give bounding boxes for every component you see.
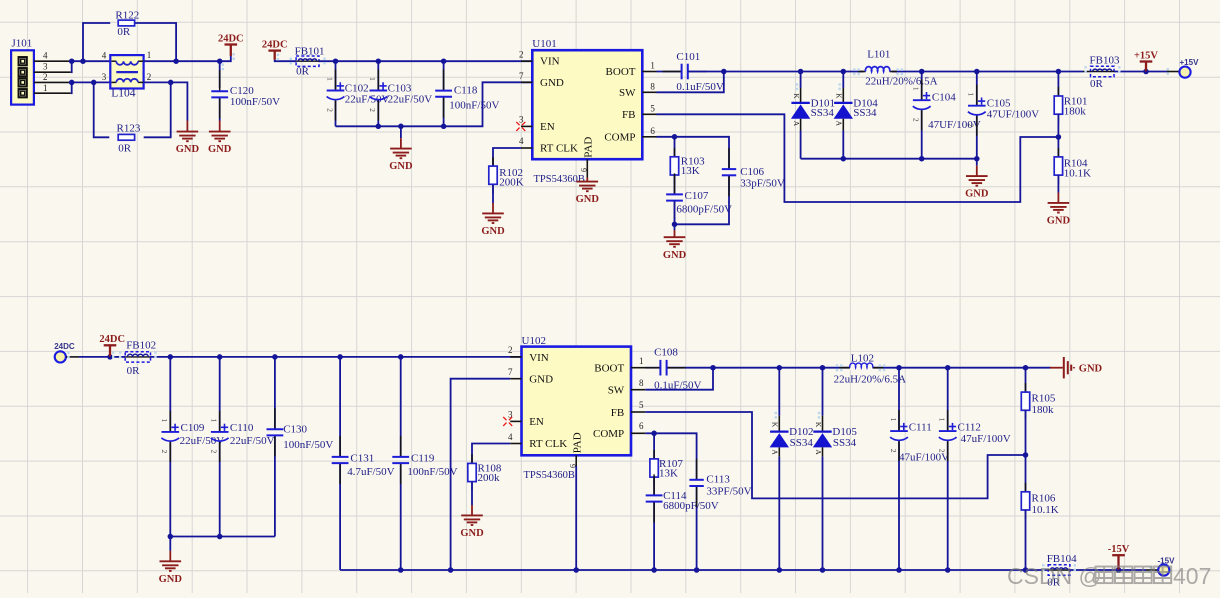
svg-text:R123: R123: [117, 123, 141, 135]
svg-text:0R: 0R: [118, 142, 132, 154]
svg-text:1: 1: [889, 418, 898, 422]
junction C111 tap: [896, 365, 902, 371]
ferrite bead FB104: [1048, 565, 1070, 575]
wire rail to FB103: [1058, 71, 1083, 73]
svg-text:2: 2: [967, 123, 976, 127]
wire C118 top: [443, 61, 445, 90]
junction GND tap: [398, 124, 404, 130]
ground GND net3 stub: [400, 138, 402, 148]
svg-text:7: 7: [508, 367, 513, 377]
svg-text:U102: U102: [522, 335, 546, 347]
junction D105 tap: [820, 365, 826, 371]
wire to R105: [1025, 368, 1027, 392]
svg-text:24DC: 24DC: [54, 342, 75, 351]
svg-text:2: 2: [889, 449, 898, 453]
wire pin3 riser: [70, 61, 73, 72]
svg-text:47UF/100V: 47UF/100V: [987, 108, 1040, 120]
resistor R101: [1057, 87, 1059, 96]
wire BOOT to C101: [657, 71, 682, 73]
resistor R106: [1025, 483, 1027, 492]
svg-text:7: 7: [519, 71, 524, 81]
capacitor C102: [335, 70, 337, 91]
junction R123 right: [168, 80, 174, 86]
junction C102 tap: [333, 58, 339, 64]
junction C114 bottom: [651, 567, 657, 573]
wire COMP to R103: [674, 137, 676, 157]
junction 24DC sym: [107, 354, 113, 360]
D104 anode pin: [842, 119, 844, 131]
svg-text:180k: 180k: [1032, 404, 1055, 416]
svg-text:RT CLK: RT CLK: [529, 438, 567, 450]
wire C119 top: [400, 357, 402, 457]
junction C120 tap: [217, 58, 223, 64]
wire COMP2 to C113: [654, 433, 697, 480]
wire to GND7: [674, 224, 676, 230]
wire PAD to rail: [575, 466, 577, 570]
svg-text:EN: EN: [540, 121, 555, 133]
wire COMP2: [645, 432, 654, 434]
svg-text:GND: GND: [176, 144, 200, 155]
svg-text:3: 3: [43, 62, 48, 72]
resistor R108: [471, 454, 473, 463]
wire L104 pin2: [144, 81, 171, 83]
D105 cathode pin: [822, 416, 824, 432]
wire to R101: [1057, 72, 1059, 97]
D102 cathode pin: [778, 416, 780, 432]
power 24DC #1: [225, 45, 238, 57]
J101 pin 4: [34, 60, 72, 62]
U102 PAD pin line: [575, 455, 577, 466]
diode D105: [813, 432, 832, 448]
svg-text:FB101: FB101: [295, 45, 325, 57]
wire R104 to GND: [1057, 175, 1059, 192]
wire FB104 to -15V: [1070, 569, 1119, 571]
ground GND net10 stub: [471, 505, 473, 515]
ground GND net5 stub: [492, 203, 494, 213]
capacitor C106: [728, 148, 730, 169]
svg-text:2: 2: [43, 72, 48, 82]
port +15V: [1179, 67, 1190, 78]
wire COMP: [657, 136, 675, 138]
wire C103 top: [377, 61, 379, 90]
junction SW-BOOT: [721, 69, 727, 75]
wire C130 bottom: [274, 436, 276, 537]
wire D105 top: [822, 368, 824, 416]
svg-text:8: 8: [639, 378, 644, 388]
wire rail L104 to 24DC: [144, 56, 231, 61]
wire C120 top: [219, 61, 221, 88]
svg-text:GND: GND: [540, 77, 564, 89]
wire to port -15V: [1119, 569, 1147, 571]
capacitor C112: [947, 410, 949, 431]
junction C104 tap: [919, 69, 925, 75]
wire C107 bottom: [674, 201, 676, 225]
wire C113 bottom: [696, 486, 698, 570]
svg-text:PAD: PAD: [572, 432, 584, 453]
svg-text:C104: C104: [932, 92, 956, 104]
wire SW2 pin link: [645, 368, 713, 390]
svg-text:GND: GND: [481, 226, 505, 237]
svg-text:C109: C109: [181, 422, 205, 434]
resistor R122: [118, 20, 134, 26]
D101 cathode pin: [800, 88, 802, 103]
capacitor C118: [443, 70, 445, 91]
wire C118 bottom: [443, 97, 445, 126]
svg-text:FB: FB: [611, 407, 624, 419]
svg-text:U101: U101: [532, 38, 556, 50]
resistor R102: [492, 157, 494, 166]
ground GND symbol 6 (output): [966, 176, 988, 186]
svg-text:1: 1: [938, 418, 947, 422]
junction C118 bottom: [441, 124, 447, 130]
svg-text:13K: 13K: [681, 165, 700, 177]
wire rail to L104 pin4: [72, 60, 111, 62]
power 24DC #3: [104, 345, 117, 357]
wire R123 right: [144, 82, 171, 137]
wire R103 to C107: [674, 174, 676, 194]
svg-text:GND: GND: [389, 161, 413, 172]
svg-text:200K: 200K: [499, 177, 524, 189]
svg-text:CSDN @: CSDN @: [1007, 563, 1102, 589]
svg-text:GND: GND: [529, 374, 553, 386]
wire BOOT2 to C108: [645, 367, 660, 369]
watermark CSDN: [1007, 563, 1211, 589]
svg-text:2: 2: [368, 108, 377, 112]
svg-text:SW: SW: [608, 384, 625, 396]
svg-text:BOOT: BOOT: [594, 362, 624, 374]
junction -15V tap: [1116, 567, 1122, 573]
wire C105 bottom lead: [976, 116, 978, 159]
svg-text:GND: GND: [460, 528, 484, 539]
wire D105 bottom: [822, 457, 824, 570]
svg-text:6: 6: [650, 126, 655, 136]
svg-text:4: 4: [102, 51, 107, 61]
junction D101 tap: [798, 69, 804, 75]
svg-text:SS34: SS34: [833, 437, 857, 449]
svg-text:EN: EN: [529, 416, 544, 428]
svg-text:+15V: +15V: [1180, 58, 1200, 67]
wire R102 to GND: [492, 185, 494, 203]
ground GND net6 stub: [976, 166, 978, 176]
wire C101 to SW node: [688, 71, 724, 73]
wire C111 top: [898, 368, 900, 431]
svg-text:100nF/50V: 100nF/50V: [230, 96, 280, 108]
svg-text:1: 1: [147, 50, 152, 60]
J101 pin 1: [34, 92, 71, 94]
junction R123 left: [91, 80, 97, 86]
junction R122 right: [173, 58, 179, 64]
wire input cap return: [170, 536, 275, 538]
svg-text:24DC: 24DC: [262, 39, 288, 50]
junction C113 bottom: [694, 567, 700, 573]
capacitor C119: [400, 436, 402, 457]
svg-text:0R: 0R: [296, 66, 310, 78]
J101 pin 3: [34, 71, 71, 73]
capacitor C107: [674, 173, 676, 194]
wire D102 bottom: [778, 457, 780, 570]
L101 coil: [865, 67, 889, 72]
wire C131 top: [339, 357, 341, 457]
port -15V: [1158, 564, 1169, 575]
no-ERC marker U102 EN: [503, 417, 512, 426]
inductor L102: [850, 365, 873, 370]
capacitor C109: [169, 411, 171, 432]
junction R106 bottom: [1023, 567, 1029, 573]
ground GND symbol 9 (input caps): [160, 561, 182, 571]
wire C130 top: [274, 357, 276, 429]
svg-text:C118: C118: [454, 84, 478, 96]
ground GND net9 stub: [169, 551, 171, 561]
D102 anode pin: [778, 447, 780, 456]
connector J101: [11, 50, 34, 104]
resistor R104: [1057, 148, 1059, 157]
svg-text:4: 4: [508, 432, 513, 442]
capacitor C120: [219, 70, 221, 91]
power 24DC #2: [268, 51, 281, 60]
ground GND symbol 8 (R104): [1048, 203, 1070, 213]
wire FB route: [657, 114, 1059, 202]
resistor R103: [674, 148, 676, 157]
wire R122 left: [83, 23, 110, 61]
svg-text:L104: L104: [111, 88, 136, 100]
port -15V pin: [1146, 569, 1158, 571]
svg-text:33pF/50V: 33pF/50V: [740, 177, 785, 189]
U102 right pin lines: [631, 367, 645, 369]
svg-text:GND: GND: [663, 250, 687, 261]
svg-text:C119: C119: [411, 453, 435, 465]
junction C110 bottom: [217, 534, 223, 540]
svg-text:C113: C113: [706, 474, 730, 486]
D101 anode pin: [800, 119, 802, 131]
wire COMP2 to R107: [653, 433, 655, 459]
U101 PAD pin line: [586, 159, 588, 177]
capacitor C130: [274, 408, 276, 429]
svg-text:A: A: [771, 449, 780, 455]
wire R108 to GND: [471, 482, 473, 505]
junction R105 tap: [1023, 365, 1029, 371]
ground GND net1 stub: [186, 121, 188, 132]
wire pin1 riser: [70, 82, 73, 93]
resistor R107: [653, 450, 655, 459]
junction FB divider 2: [1023, 452, 1029, 458]
svg-text:1: 1: [368, 77, 377, 81]
wire C110 top: [219, 357, 221, 432]
svg-text:A: A: [814, 449, 823, 455]
svg-text:4: 4: [519, 136, 524, 146]
resistor R105: [1025, 383, 1027, 392]
wire R123 left: [94, 82, 110, 137]
wire C110 bottom: [219, 442, 221, 536]
capacitor C105: [976, 85, 978, 106]
svg-text:TPS54360B: TPS54360B: [534, 174, 585, 185]
wire D104 top: [842, 72, 844, 89]
wire SW rail: [724, 71, 1059, 73]
L102 coil: [850, 363, 873, 368]
ground GND symbol 11 (rotated): [1050, 367, 1063, 369]
junction C119 tap: [398, 354, 404, 360]
svg-text:SW: SW: [619, 87, 636, 99]
svg-text:22uH/20%/6.5A: 22uH/20%/6.5A: [865, 76, 937, 88]
wire R122 right: [135, 23, 176, 61]
svg-text:4.7uF/50V: 4.7uF/50V: [347, 466, 394, 478]
capacitor C111: [898, 410, 900, 431]
junction pins 3-4: [69, 58, 75, 64]
junction C109 bottom: [168, 534, 174, 540]
junction COMP node: [672, 134, 678, 140]
junction C103 bottom: [376, 124, 382, 130]
op-amp U101 TPS54360B body: [532, 50, 642, 159]
ferrite bead FB101: [296, 56, 319, 66]
junction FB divider: [1056, 134, 1062, 140]
svg-text:3: 3: [102, 72, 107, 82]
svg-text:C112: C112: [958, 421, 981, 433]
svg-text:6800pF/50V: 6800pF/50V: [663, 500, 719, 512]
capacitor C131: [339, 436, 341, 457]
capacitor C108: [641, 367, 660, 369]
capacitor C101: [663, 71, 682, 73]
svg-text:100nF/50V: 100nF/50V: [283, 439, 333, 451]
svg-text:2: 2: [519, 50, 524, 60]
junction C118 tap: [441, 58, 447, 64]
svg-text:2: 2: [160, 450, 169, 454]
svg-text:RT CLK: RT CLK: [540, 143, 578, 155]
wire C102 top: [335, 61, 337, 90]
junction C131 tap: [337, 354, 343, 360]
svg-text:R122: R122: [115, 9, 139, 21]
ground GND net2 stub: [219, 121, 221, 132]
wire VIN rail bottom: [151, 356, 522, 358]
junction D104 bottom: [841, 156, 847, 162]
svg-text:100nF/50V: 100nF/50V: [449, 99, 499, 111]
wire C112 top: [947, 368, 949, 431]
svg-text:GND: GND: [576, 194, 600, 205]
svg-text:1: 1: [210, 419, 219, 423]
junction +15V tap: [1143, 69, 1149, 75]
junction C119 bottom: [398, 567, 404, 573]
wire C106 bottom: [675, 176, 730, 225]
wire output gnd rail: [801, 158, 977, 160]
svg-text:0R: 0R: [127, 365, 141, 377]
ground GND symbol 1: [177, 132, 199, 142]
svg-text:C130: C130: [283, 424, 307, 436]
D105 anode pin: [822, 447, 824, 456]
svg-text:GND: GND: [159, 574, 183, 585]
svg-text:22uH/20%/6.5A: 22uH/20%/6.5A: [834, 373, 906, 385]
port 24DC: [55, 351, 66, 362]
U102 left pin lines: [510, 356, 521, 358]
ground GND net8 stub: [1057, 193, 1059, 203]
wire SW rail bottom: [713, 367, 1051, 369]
junction U102 GND drop: [448, 567, 454, 573]
svg-text:C110: C110: [230, 422, 254, 434]
svg-text:-15V: -15V: [1108, 544, 1130, 555]
capacitor C110: [219, 411, 221, 432]
junction C110 tap: [217, 354, 223, 360]
svg-text:GND: GND: [965, 189, 989, 200]
ground GND symbol 7 (comp): [664, 237, 686, 247]
svg-text:0.1uF/50V: 0.1uF/50V: [676, 81, 723, 93]
wire R105 to node: [1025, 410, 1027, 455]
svg-text:2: 2: [325, 108, 334, 112]
svg-text:GND: GND: [208, 144, 232, 155]
wire C109 top: [169, 357, 171, 432]
junction D102 tap: [777, 365, 783, 371]
inductor L101: [864, 69, 893, 74]
resistor R123: [118, 134, 134, 140]
wire COMP to C106: [675, 137, 730, 169]
junction COMP2 node: [651, 431, 657, 437]
svg-text:0R: 0R: [117, 26, 130, 38]
svg-text:TPS54360B: TPS54360B: [524, 470, 575, 481]
svg-text:2: 2: [508, 345, 513, 355]
svg-text:K: K: [792, 93, 801, 99]
svg-text:1: 1: [912, 87, 921, 91]
port +15V pin: [1167, 71, 1180, 73]
wire VIN rail: [319, 60, 532, 62]
wire to FB102: [110, 356, 125, 358]
svg-text:10.1K: 10.1K: [1032, 504, 1059, 516]
wire to GND9: [169, 537, 171, 551]
junction C105 tap: [974, 69, 980, 75]
power -15V: [1112, 555, 1125, 570]
junction pins 1-2: [69, 80, 75, 86]
svg-text:4: 4: [43, 51, 48, 61]
wire RTCLK to R102: [493, 148, 521, 166]
svg-text:1: 1: [650, 61, 655, 71]
svg-text:A: A: [835, 121, 844, 127]
svg-text:1: 1: [639, 356, 644, 366]
junction R122 left: [80, 58, 86, 64]
svg-text:47uF/100V: 47uF/100V: [899, 452, 949, 464]
svg-text:1: 1: [43, 83, 48, 93]
svg-text:1: 1: [325, 77, 334, 81]
ground GND net7 stub: [674, 230, 676, 237]
wire D101 top: [800, 72, 802, 89]
svg-text:J101: J101: [12, 38, 33, 50]
wire -15V rail: [340, 569, 1048, 571]
diode D101: [791, 103, 810, 119]
capacitor C103: [377, 70, 379, 91]
wire 24DC to FB101: [275, 60, 296, 61]
svg-text:L102: L102: [851, 352, 874, 364]
junction C112 tap: [945, 365, 951, 371]
wire port to 24DC sym: [79, 356, 110, 358]
svg-text:13K: 13K: [659, 467, 678, 479]
svg-text:C108: C108: [654, 347, 678, 359]
junction C109 tap: [168, 354, 174, 360]
capacitor C104: [921, 79, 923, 100]
wire GND6 drop: [976, 159, 978, 166]
capacitor C114: [653, 474, 655, 495]
junction C104 bottom: [919, 156, 925, 162]
U101 right pin lines: [642, 71, 656, 73]
svg-text:C131: C131: [350, 453, 374, 465]
selection handles: [67, 53, 1169, 573]
wire C104 top: [921, 72, 923, 101]
svg-text:VIN: VIN: [529, 352, 549, 364]
wire GND3 drop: [400, 126, 402, 138]
wire C108 to SW node: [667, 367, 713, 369]
svg-text:K: K: [814, 422, 823, 428]
svg-text:2: 2: [912, 118, 921, 122]
wire FB route 2: [645, 412, 1025, 498]
wire C103 bottom: [377, 101, 379, 126]
ground GND symbol 5 (R102): [482, 213, 504, 223]
svg-text:GND: GND: [1079, 363, 1103, 374]
svg-text:+15V: +15V: [1134, 50, 1158, 61]
junction C105 bottom: [974, 156, 980, 162]
svg-text:9: 9: [579, 168, 588, 172]
